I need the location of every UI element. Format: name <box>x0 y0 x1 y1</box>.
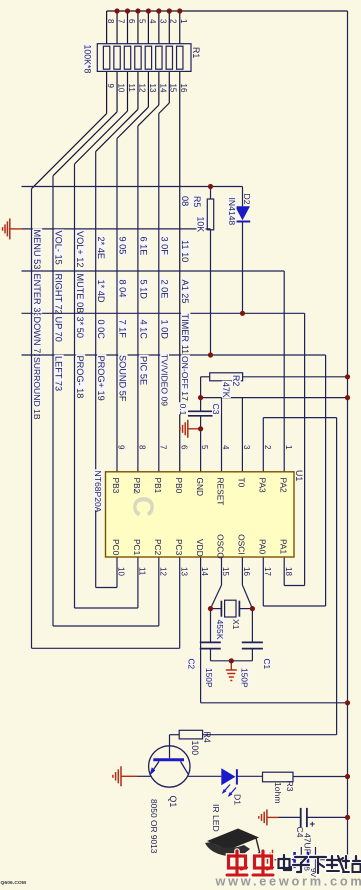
svg-text:4: 4 <box>221 445 230 450</box>
svg-text:SURROUND 1B: SURROUND 1B <box>32 357 42 420</box>
svg-text:150P: 150P <box>240 668 250 688</box>
svg-text:OSCI: OSCI <box>237 534 247 554</box>
svg-text:1ohm: 1ohm <box>273 782 283 804</box>
svg-text:GND: GND <box>195 478 205 497</box>
svg-text:0.1: 0.1 <box>178 404 188 416</box>
svg-text:1: 1 <box>284 445 293 450</box>
svg-text:R5: R5 <box>192 196 202 207</box>
svg-text:IR LED: IR LED <box>211 804 221 832</box>
svg-text:MUTE 0B: MUTE 0B <box>75 274 85 314</box>
svg-text:VOL+ 12: VOL+ 12 <box>75 231 85 268</box>
svg-text:16: 16 <box>242 567 251 576</box>
svg-text:6 1E: 6 1E <box>138 237 148 256</box>
svg-text:455K: 455K <box>215 620 225 640</box>
svg-text:13: 13 <box>179 567 188 576</box>
svg-text:12: 12 <box>137 84 146 93</box>
svg-text:ON-OFF 17: ON-OFF 17 <box>180 356 190 401</box>
svg-text:3 0F: 3 0F <box>159 237 169 256</box>
svg-text:PIC 5E: PIC 5E <box>138 356 148 385</box>
svg-text:10K: 10K <box>196 217 206 233</box>
svg-text:X1: X1 <box>231 619 241 630</box>
svg-text:100: 100 <box>190 741 200 756</box>
svg-text:4 1C: 4 1C <box>138 320 148 340</box>
svg-text:SOUND 5F: SOUND 5F <box>117 355 127 402</box>
svg-text:PC3: PC3 <box>174 539 184 556</box>
svg-text:10: 10 <box>116 84 125 93</box>
svg-text:14: 14 <box>158 84 167 93</box>
svg-text:PA0: PA0 <box>258 539 268 555</box>
svg-text:7: 7 <box>158 445 167 450</box>
svg-text:TV/VIDEO 09: TV/VIDEO 09 <box>159 354 169 406</box>
svg-text:47UF: 47UF <box>302 833 312 854</box>
svg-text:13: 13 <box>148 84 157 93</box>
svg-text:1: 1 <box>179 19 188 24</box>
svg-text:OSCO: OSCO <box>216 534 226 559</box>
svg-text:PROG- 18: PROG- 18 <box>75 356 85 399</box>
svg-text:0 0C: 0 0C <box>96 320 106 340</box>
svg-text:11: 11 <box>127 84 136 93</box>
svg-text:PB1: PB1 <box>153 478 163 494</box>
svg-text:6: 6 <box>127 19 136 24</box>
svg-text:150P: 150P <box>204 668 214 688</box>
svg-text:PA3: PA3 <box>258 478 268 494</box>
svg-text:9: 9 <box>106 84 115 89</box>
svg-text:R1: R1 <box>191 47 201 58</box>
svg-text:C3: C3 <box>211 404 221 415</box>
svg-text:10: 10 <box>117 567 126 576</box>
svg-text:VDD: VDD <box>195 539 205 557</box>
svg-text:8050 OR 9013: 8050 OR 9013 <box>149 799 159 854</box>
svg-text:DOWN 71: DOWN 71 <box>32 317 42 359</box>
svg-text:ENTER 33: ENTER 33 <box>32 274 42 318</box>
svg-text:8 04: 8 04 <box>117 280 127 298</box>
svg-text:14: 14 <box>200 567 209 576</box>
svg-text:8: 8 <box>138 445 147 450</box>
svg-text:LEFT 73: LEFT 73 <box>54 356 64 391</box>
svg-text:18: 18 <box>284 567 293 576</box>
svg-text:16: 16 <box>179 84 188 93</box>
svg-text:2 0E: 2 0E <box>159 280 169 299</box>
svg-text:5 1D: 5 1D <box>138 280 148 300</box>
svg-text:2: 2 <box>263 445 272 450</box>
svg-text:NT68P20A: NT68P20A <box>93 471 103 513</box>
svg-text:UP 70: UP 70 <box>54 317 64 342</box>
svg-text:3* 50: 3* 50 <box>75 317 85 338</box>
svg-text:1* 4D: 1* 4D <box>96 280 106 303</box>
svg-text:R3: R3 <box>285 781 295 792</box>
svg-text:2: 2 <box>169 19 178 24</box>
svg-text:47K: 47K <box>221 382 231 398</box>
svg-text:TIMER 11: TIMER 11 <box>180 314 190 355</box>
svg-text:PB0: PB0 <box>174 478 184 494</box>
svg-text:15: 15 <box>221 567 230 576</box>
svg-text:VOL- 15: VOL- 15 <box>54 231 64 265</box>
svg-text:PA2: PA2 <box>278 478 288 494</box>
svg-text:T0: T0 <box>237 478 247 488</box>
svg-text:RIGHT 72: RIGHT 72 <box>54 274 64 315</box>
svg-text:9 05: 9 05 <box>117 237 127 255</box>
svg-text:08: 08 <box>180 196 190 206</box>
svg-text:IN4148: IN4148 <box>227 198 237 226</box>
svg-text:PC1: PC1 <box>132 539 142 556</box>
svg-text:9: 9 <box>117 445 126 450</box>
svg-text:U1: U1 <box>294 470 304 481</box>
svg-text:1 0D: 1 0D <box>159 320 169 340</box>
svg-text:100K*8: 100K*8 <box>82 45 92 74</box>
svg-text:3: 3 <box>242 445 251 450</box>
svg-text:D1: D1 <box>232 794 242 805</box>
svg-text:+: + <box>310 819 316 830</box>
svg-text:R2: R2 <box>231 375 241 386</box>
svg-text:3: 3 <box>158 19 167 24</box>
svg-text:2* 4E: 2* 4E <box>96 237 106 259</box>
svg-text:A1 25: A1 25 <box>180 280 190 304</box>
svg-text:5: 5 <box>200 445 209 450</box>
svg-text:PROG+ 19: PROG+ 19 <box>96 356 106 401</box>
svg-text:11 10: 11 10 <box>180 240 190 262</box>
svg-text:C1: C1 <box>262 659 272 670</box>
svg-text:D2: D2 <box>242 194 252 205</box>
svg-text:15: 15 <box>169 84 178 93</box>
svg-text:7: 7 <box>116 19 125 24</box>
svg-text:R4: R4 <box>202 732 212 743</box>
svg-text:11: 11 <box>138 567 147 576</box>
svg-text:Q606.COM: Q606.COM <box>1 880 27 886</box>
svg-text:C2: C2 <box>186 659 196 670</box>
svg-text:8: 8 <box>106 19 115 24</box>
svg-text:4: 4 <box>148 19 157 24</box>
svg-text:PB2: PB2 <box>132 478 142 494</box>
svg-text:PA1: PA1 <box>278 539 288 555</box>
svg-text:5: 5 <box>137 19 146 24</box>
svg-text:PB3: PB3 <box>111 478 121 494</box>
svg-text:PC0: PC0 <box>111 539 121 556</box>
svg-text:PC2: PC2 <box>153 539 163 556</box>
svg-text:12: 12 <box>158 567 167 576</box>
svg-text:RESET: RESET <box>216 478 226 506</box>
svg-text:MENU 53: MENU 53 <box>32 230 42 270</box>
svg-text:Q1: Q1 <box>168 796 178 808</box>
svg-text:6: 6 <box>179 445 188 450</box>
svg-text:17: 17 <box>263 567 272 576</box>
svg-text:7 1F: 7 1F <box>117 320 127 339</box>
